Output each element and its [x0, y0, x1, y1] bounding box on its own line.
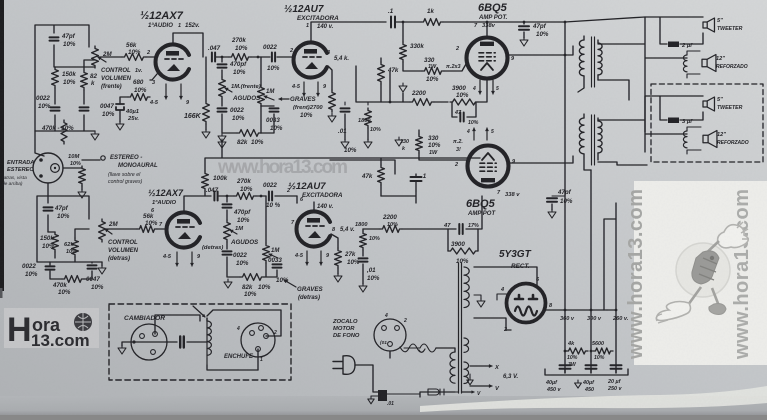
- filter capacitor 40uf-2: [586, 365, 597, 368]
- ground cambiador: [118, 345, 126, 354]
- wire cambiador left to ground: [122, 342, 131, 346]
- capacitor .01 ch2: [359, 258, 368, 261]
- wire V2 plate to top rail: [311, 22, 386, 42]
- ground heater CT: [469, 374, 471, 378]
- resistor 100k mid: [202, 171, 209, 191]
- output transformer T1: [579, 40, 584, 76]
- wire mid bus upper: [356, 66, 448, 102]
- potentiometer 1M agudos detras: [224, 220, 231, 242]
- power transformer core: [459, 263, 462, 393]
- resistor 56k grid: [122, 54, 146, 61]
- ground 166k: [202, 129, 210, 138]
- heater arrows 6BQ5 upper: [479, 80, 481, 94]
- resistor 150k ch1: [52, 67, 59, 88]
- capacitor 470pf ch2: [226, 196, 228, 202]
- capacitor 0022 ch1: [51, 107, 60, 110]
- node junction dots ch1: [221, 56, 224, 59]
- tube V2 1/2 12AU7 excitadora: [294, 43, 327, 78]
- resistor 82k tone ch2: [240, 274, 264, 281]
- output transformer T2: [579, 118, 584, 154]
- wire screen to tube top: [486, 22, 488, 36]
- wire lower 12AU7 to power area: [297, 191, 416, 203]
- wire T2 to speaker box: [598, 96, 703, 165]
- wire lower bus: [331, 229, 448, 248]
- hora13 logo plate: [4, 308, 99, 348]
- ground 27k: [334, 273, 342, 282]
- ground 47pf top: [523, 32, 525, 38]
- wire B+ rail 3: [604, 203, 616, 373]
- wire lower-left loop: [37, 196, 102, 262]
- ground pot ch2: [101, 262, 103, 266]
- resistor 150k ch2: [52, 232, 59, 252]
- wire cord squiggle from socket: [400, 344, 425, 352]
- resistor 1800 ch1: [345, 102, 368, 105]
- ground stub mid: [402, 93, 404, 102]
- filter capacitor 40uf-1: [560, 365, 571, 368]
- resistor 1800 ch2: [362, 229, 364, 231]
- capacitor 0033 ch1: [270, 108, 279, 111]
- speaker woofer 1: [702, 55, 716, 72]
- resistor 5600: [593, 348, 613, 354]
- wire V3 plate up to coupling: [184, 196, 211, 212]
- wire 6BQ5 lower plate to transformer2: [509, 156, 573, 163]
- wire top-left loop: [35, 25, 95, 131]
- capacitor 470pf ch1: [221, 57, 223, 62]
- grid network 6BQ5 lower - 330 resistor: [330, 160, 395, 174]
- speaker tweeter 1: [703, 18, 714, 32]
- resistor 470k ch1 diagonal: [61, 120, 67, 144]
- ground tone ch1: [218, 133, 226, 142]
- speaker tweeter 2: [703, 97, 714, 111]
- capacitor .01 line filter: [378, 390, 387, 401]
- tube V6 6BQ5 lower: [468, 146, 509, 187]
- ground 1800/.01: [341, 139, 349, 148]
- resistor 47k lower: [380, 158, 382, 165]
- logo globe icon: [74, 313, 92, 331]
- wire into V4 grid: [296, 196, 298, 203]
- primary coil: [450, 352, 455, 383]
- watermark cartoon figure: [656, 222, 749, 323]
- wire V4 plate stub: [313, 202, 315, 211]
- switch squiggle on primary: [404, 344, 436, 352]
- capacitor 47pf ch1: [50, 37, 59, 40]
- ground .01 ch2: [359, 283, 367, 292]
- resistor 27k V4 cathode: [335, 248, 342, 268]
- wire primary leads: [420, 348, 455, 397]
- white watermark panel right: [634, 181, 767, 365]
- resistor 270k ch1: [229, 54, 251, 61]
- paper grain overlay: [0, 0, 1, 1]
- resistor 166k grid leak: [205, 57, 207, 130]
- potentiometer 1M graves detras: [265, 196, 267, 243]
- arrow tap top of coil: [193, 306, 205, 317]
- wire T1 secondary to speakers: [598, 17, 703, 132]
- cathode resistor 2700 V2: [328, 66, 332, 90]
- capacitor 0022 ch2 coupling: [269, 192, 272, 201]
- wire enchufe bottom: [257, 349, 259, 370]
- autotransformer coil cambiador: [207, 321, 211, 355]
- ground tone ch2: [224, 279, 232, 288]
- wire HV secondary to rectifier: [474, 267, 537, 285]
- ground pot ch1: [91, 131, 99, 140]
- heater arrows 6BQ5 lower: [473, 128, 475, 140]
- tube V3 1/2 12AX7 first audio detras: [167, 213, 200, 248]
- heater leads arrows: [470, 365, 492, 367]
- resistor 330 1W lower: [416, 134, 423, 153]
- wire plug to primary circuit: [355, 365, 378, 392]
- capacitor 47pf screen bypass top: [523, 22, 525, 24]
- wire top rail to output stage: [443, 17, 645, 22]
- capacitor 47pf ch2: [44, 207, 53, 210]
- ground 40uf: [119, 110, 121, 122]
- wire filter ground bus: [545, 369, 628, 375]
- page curl highlight bottom right: [420, 386, 767, 412]
- dashed speaker box: [651, 84, 763, 162]
- capacitor 3uf: [668, 118, 679, 124]
- wire cambiador top loop: [155, 315, 200, 334]
- ground HV center tap: [474, 295, 481, 299]
- potentiometer 2M volume detras: [99, 219, 106, 242]
- wire 6BQ5 upper plate to transformer: [508, 46, 573, 55]
- AC plug: [333, 356, 355, 375]
- capacitor .047 ch2 coupling: [214, 192, 217, 201]
- wire connector top/bottom: [35, 131, 48, 196]
- left black scan edge: [0, 0, 4, 291]
- resistor 470k ch2: [62, 276, 84, 283]
- capacitor .1 lower: [411, 177, 422, 181]
- bottom scan shadow band: [0, 396, 767, 415]
- wire T1 secondary bottom down: [598, 80, 629, 100]
- resistor 330 1W upper: [422, 68, 444, 75]
- resistor 680 cathode V1: [128, 94, 150, 101]
- resistor 270k ch2: [234, 193, 256, 200]
- capacitor 0022 coupling ch1: [272, 53, 275, 62]
- tube V4 1/2 12AU7 excitadora lower: [297, 212, 330, 247]
- capacitor 40uf 25v cathode: [116, 104, 124, 110]
- resistor 82k ch1: [81, 70, 88, 90]
- voice coil woofer 1: [683, 55, 687, 72]
- ground filter bus: [575, 380, 582, 388]
- stereo input connector: [33, 153, 63, 183]
- wire rectifier output line: [546, 309, 616, 311]
- dashed box cambiador: [109, 304, 291, 380]
- phono socket zocalo motor de fono: [374, 319, 406, 351]
- heater arrows V4: [306, 251, 308, 265]
- connector cambiador: [131, 324, 167, 360]
- resistor 62k ch2: [72, 238, 79, 257]
- ground 10M: [81, 186, 83, 190]
- potentiometer 1M graves frente: [260, 57, 262, 85]
- parallel RC 3900 + 47 upper: [450, 99, 478, 105]
- capacitor cambiador: [166, 341, 177, 343]
- ground mid line left: [218, 139, 226, 148]
- resistor 10M: [79, 166, 86, 186]
- potentiometer 1M agudos frente: [219, 77, 226, 99]
- resistor 1k top rail: [421, 19, 443, 26]
- connector enchufe: [241, 323, 275, 357]
- heater arrows V3: [176, 252, 178, 266]
- wire enchufe right loop: [207, 310, 281, 336]
- heater arrows V1: [165, 84, 167, 99]
- wire rectifier pin4 stub: [497, 294, 508, 300]
- tube V5 6BQ5 upper: [467, 38, 508, 79]
- resistor 47k upper: [380, 58, 382, 62]
- wire tone stack bottom ch1: [261, 125, 274, 133]
- wire B+ rail 1: [564, 22, 566, 373]
- capacitor .047 coupling ch1: [212, 53, 215, 62]
- wire B+ rail 2: [590, 170, 592, 373]
- heater winding X/V: [464, 338, 469, 352]
- switch terminal estereo-monoaural: [101, 156, 105, 160]
- resistor 2200 lower: [380, 226, 402, 233]
- capacitor 0047 ch2: [88, 265, 97, 268]
- wire connector to switch: [63, 160, 100, 168]
- capacitor 0047 ch1: [80, 107, 89, 110]
- wire V1 plate to coupling cap: [173, 33, 203, 57]
- capacitor 0022 agudos ch1: [218, 108, 227, 111]
- wire speaker return vertical: [606, 309, 608, 311]
- filter capacitor 20uf: [611, 365, 622, 368]
- ground line filter: [371, 396, 378, 398]
- ground stub grid lower: [395, 137, 403, 146]
- capacitor 2uf: [668, 42, 679, 48]
- HV secondary coil: [464, 267, 469, 308]
- potentiometer 2M volume frente: [92, 46, 99, 68]
- wire grid v1: [98, 56, 155, 58]
- resistor 2200 mid upper: [410, 99, 434, 106]
- speaker woofer 2: [703, 131, 717, 148]
- capacitor 0033 ch2: [273, 264, 282, 267]
- voice coil woofer 2: [683, 131, 687, 148]
- tube V7 5Y3GT rectifier: [507, 284, 546, 323]
- resistor 330k grid 6BQ5 upper: [402, 22, 404, 42]
- wire long mid line: [205, 142, 480, 171]
- capacitor .1 top rail: [391, 17, 395, 28]
- capacitor 0022 ch2: [46, 266, 55, 269]
- wire grid v1b: [105, 228, 166, 230]
- capacitor 0022 agudos ch2: [223, 251, 232, 254]
- parallel RC 47 + 3900 lower: [448, 229, 478, 251]
- capacitor .01 ch1: [341, 108, 350, 111]
- resistor 56k grid ch2: [137, 226, 157, 233]
- wire V1 cathode: [120, 74, 157, 104]
- fuse symbol bottom: [428, 389, 444, 395]
- resistor 82k tone ch1: [237, 130, 261, 137]
- resistor 4k: [566, 348, 588, 354]
- heater arrows V2: [303, 82, 305, 96]
- capacitor 47pf lower screen: [552, 195, 565, 197]
- tube V1 1/2 12AX7 first audio: [156, 44, 189, 79]
